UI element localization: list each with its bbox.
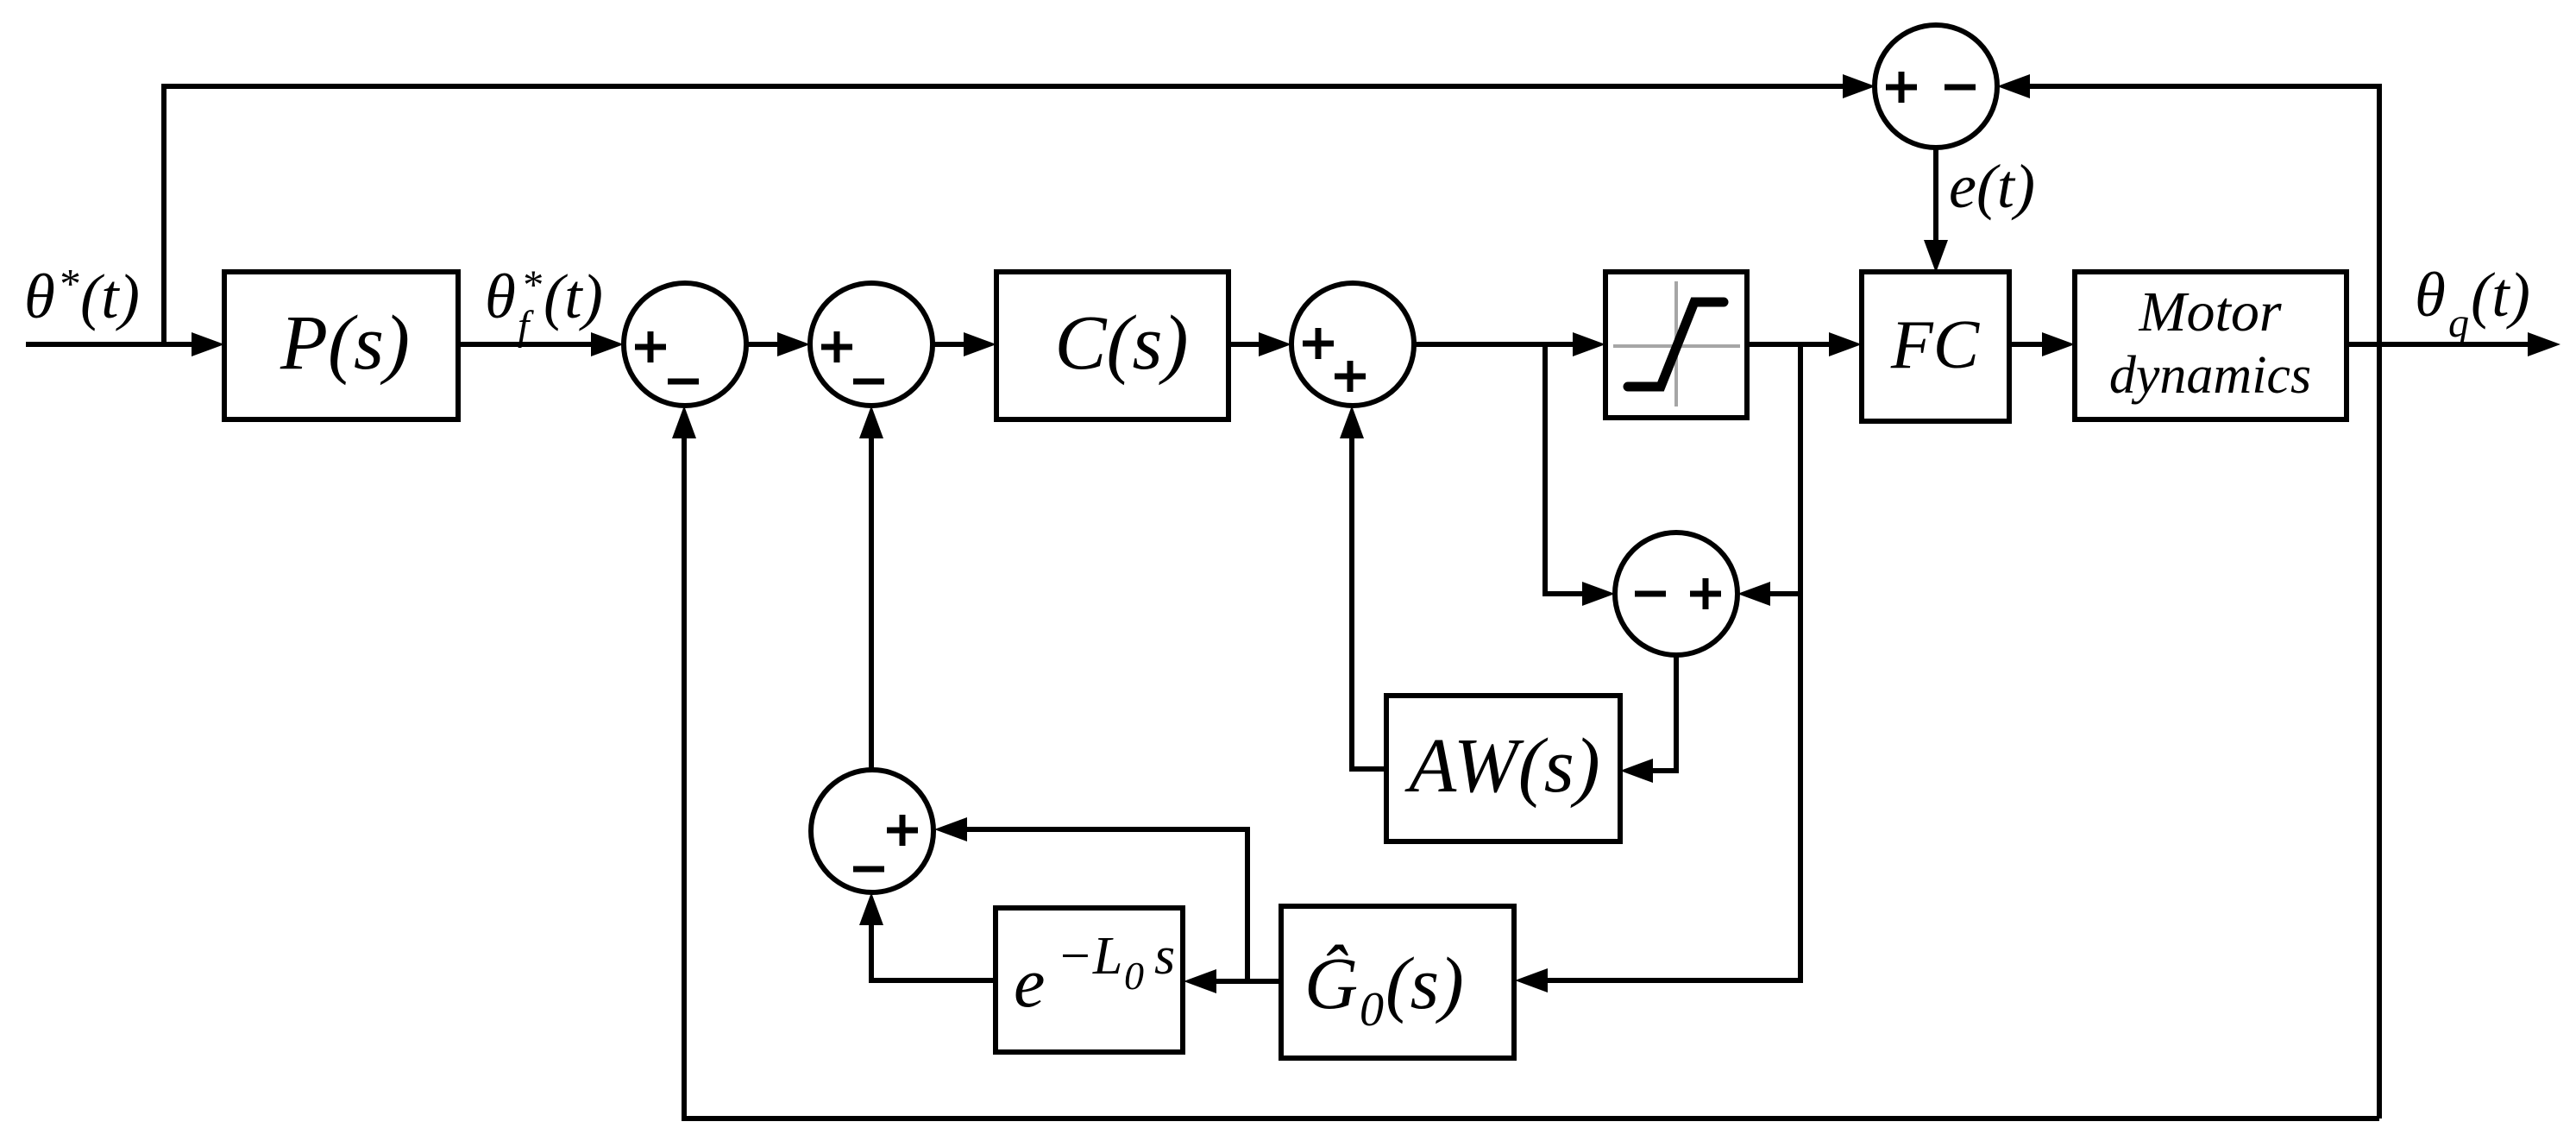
block AW(s) (1386, 696, 1620, 841)
block C(s) (996, 272, 1228, 419)
wire S1 to summing junction S2 (746, 332, 810, 356)
summing junction SA anti-windup (1615, 532, 1737, 655)
block FC (1862, 272, 2009, 421)
wire input theta*(t) into P(s) (26, 332, 224, 356)
block G0(s) model (1281, 906, 1514, 1058)
block saturation (1605, 272, 1747, 418)
wire SP output up into S2 minus input (859, 406, 883, 770)
label e(t) (1949, 152, 2035, 221)
wire branch into anti-windup summing junction SA minus input (1542, 582, 1615, 606)
wire branch into SA plus input (1737, 582, 1800, 606)
wire S3 to saturation block (1414, 332, 1605, 356)
block P(s) (224, 272, 458, 419)
wire delay output into SP bottom input (859, 892, 996, 980)
label theta*(t) (24, 260, 140, 331)
summing junction S2 (810, 283, 933, 406)
wire output theta_q(t) (2347, 332, 2560, 356)
node output takeoff vertical wire (2377, 86, 2382, 1119)
node branch after saturation at x=2087 down to G0 (1515, 344, 1800, 993)
summing junction SE top error (1875, 25, 1997, 148)
wire output feedback to top summing junction (1997, 74, 2382, 98)
node input branch at x=190 (161, 86, 166, 347)
wire saturation to FC (1747, 332, 1862, 356)
summing junction SP Smith predictor (811, 770, 933, 892)
wire AW(s) output up into S3 plus input (1340, 406, 1386, 769)
wire e(t) from SE into FC (1924, 148, 1948, 273)
wire bottom feedback from output node (684, 1116, 2379, 1121)
wire FC to Motor dynamics (2009, 332, 2075, 356)
wire C(s) to summing junction S3 (1228, 332, 1291, 356)
wire SA output into AW(s) (1620, 655, 1676, 783)
svg-text:C(s): C(s) (1055, 300, 1189, 386)
node branch of G0 output up into SP plus input (934, 817, 1247, 981)
label theta_f*(t) (485, 262, 603, 349)
summing junction S3 (1291, 283, 1414, 406)
svg-text:FC: FC (1890, 307, 1981, 383)
svg-text:e(t): e(t) (1949, 152, 2035, 221)
summing junction S1 (624, 283, 746, 406)
wire P(s) to summing junction S1 (458, 332, 624, 356)
block delay e^-L0s (996, 908, 1183, 1052)
node branch before saturation at x=1791 (1542, 344, 1548, 591)
svg-text:AW(s): AW(s) (1404, 723, 1600, 809)
wire top feedforward from node to top summing junction (161, 74, 1875, 98)
wire G0(s) output to delay block (1184, 969, 1281, 993)
wire bottom feedback up into S1 minus input (672, 406, 696, 1121)
wire S2 to C(s) (933, 332, 996, 356)
svg-text:Motor: Motor (2139, 280, 2282, 343)
label theta_q(t) (2415, 260, 2530, 346)
block Motor dynamics (2075, 272, 2347, 419)
svg-text:P(s): P(s) (280, 300, 410, 386)
svg-text:dynamics: dynamics (2109, 346, 2311, 405)
svg-text:θ*(t): θ*(t) (24, 260, 140, 331)
